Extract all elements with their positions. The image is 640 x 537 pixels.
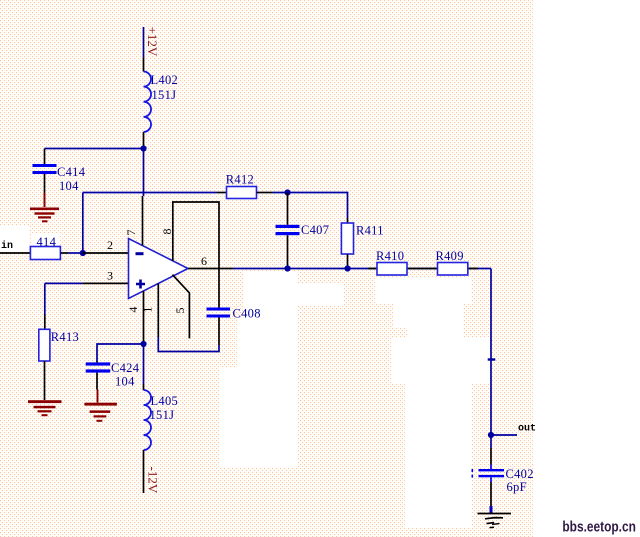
resistor R412: [217, 187, 273, 199]
wire pin4 node to L405: [143, 344, 145, 384]
resistor R413: [39, 315, 50, 401]
svg-text:6: 6: [201, 254, 207, 268]
pin 1 stub: [157, 284, 159, 338]
inductor L402: [144, 57, 152, 148]
white patch around wire tick: [408, 326, 463, 337]
svg-text:1: 1: [141, 307, 155, 313]
inductor L405: [144, 384, 152, 493]
svg-text:C407: C407: [301, 223, 329, 237]
white patch right lower block: [405, 384, 472, 528]
svg-text:4: 4: [126, 307, 140, 313]
wire node to pin7: [143, 149, 145, 197]
wire C408 bottom loop to pin1: [158, 337, 219, 352]
wire to input node: [68, 252, 83, 254]
svg-text:6pF: 6pF: [507, 480, 527, 494]
svg-text:R409: R409: [436, 249, 464, 263]
svg-text:7: 7: [124, 230, 138, 236]
capacitor C407: [276, 193, 300, 269]
svg-text:in: in: [1, 240, 13, 252]
node input junction: [80, 250, 86, 256]
capacitor C414: [33, 149, 57, 194]
svg-text:2: 2: [107, 238, 113, 252]
node C407 bottom junction: [284, 265, 290, 271]
wire output main: [233, 268, 491, 270]
ground C402 earth: [478, 514, 512, 528]
node R411 bottom junction: [344, 265, 350, 271]
capacitor C408: [207, 308, 231, 346]
svg-text:bbs.eetop.cn: bbs.eetop.cn: [562, 519, 636, 536]
power port +12V wire: [143, 27, 145, 57]
wire output vertical to out: [490, 269, 492, 436]
pin 6 stub: [188, 268, 233, 270]
svg-text:C414: C414: [57, 165, 86, 179]
pin 4 stub: [143, 291, 145, 344]
wire black leads R410 R409: [368, 268, 478, 270]
wire pin3 vertical drop: [44, 283, 46, 314]
svg-text:151J: 151J: [152, 88, 177, 102]
node C407 top junction: [284, 189, 290, 195]
white patch left of R410: [290, 283, 344, 305]
white patch small above bottom block: [237, 318, 268, 368]
white patch under R410 R409: [375, 278, 471, 304]
svg-text:L402: L402: [151, 73, 179, 87]
wire input: [0, 252, 30, 254]
resistor R409: [438, 263, 468, 276]
wire tick on vertical: [488, 358, 496, 360]
svg-text:L405: L405: [151, 394, 179, 408]
pin 5 bent stub: [173, 275, 190, 339]
wire C424 branch: [97, 344, 144, 361]
wire pin3 horizontal: [45, 282, 83, 284]
svg-text:151J: 151J: [150, 408, 175, 422]
node out junction: [488, 432, 494, 438]
capacitor C424: [86, 361, 111, 390]
white patch bottom middle block: [219, 368, 297, 467]
node L402/C414 junction: [140, 145, 146, 151]
svg-text:R411: R411: [356, 224, 384, 238]
svg-text:R410: R410: [376, 249, 404, 263]
resistor R414: [30, 247, 68, 260]
op-amp U1 triangle: [129, 239, 189, 299]
pin 3 stub: [83, 282, 129, 284]
resistor R411: [341, 218, 353, 269]
svg-text:R412: R412: [226, 173, 254, 187]
svg-text:414: 414: [37, 235, 57, 249]
svg-text:C424: C424: [111, 361, 140, 375]
svg-text:5: 5: [173, 308, 187, 314]
white patch behind 414 label: [31, 233, 60, 247]
white patch behind in label: [0, 226, 29, 251]
svg-text:C402: C402: [506, 467, 534, 481]
wire out stub: [491, 434, 517, 436]
white patch mid right band: [393, 303, 463, 327]
pin 7 stub: [142, 196, 144, 246]
svg-text:R413: R413: [51, 330, 79, 344]
wire feedback top: [83, 192, 217, 194]
pin 2 stub: [83, 252, 129, 254]
ground C414: [30, 193, 59, 222]
svg-text:104: 104: [59, 179, 79, 193]
wire R412 to R411 corner: [273, 193, 348, 219]
white patch below C408 area: [244, 272, 297, 467]
svg-text:+12V: +12V: [145, 27, 160, 57]
wire feedback drop: [82, 193, 84, 254]
resistor R410: [377, 263, 407, 276]
white patch right column: [533, 0, 640, 537]
op-amp minus sign: [136, 252, 144, 255]
ground C424: [84, 390, 117, 422]
ground R413: [28, 400, 62, 416]
op-amp plus sign: [136, 280, 145, 289]
wire C414 node horizontal: [45, 148, 144, 150]
svg-text:C408: C408: [233, 307, 261, 321]
svg-text:out: out: [518, 424, 536, 435]
svg-text:3: 3: [107, 269, 113, 283]
svg-text:-12V: -12V: [146, 467, 161, 494]
capacitor C402: [472, 435, 505, 513]
svg-text:104: 104: [115, 375, 135, 389]
pin 8 bent stub to C408 top: [173, 202, 219, 308]
svg-text:8: 8: [160, 229, 174, 235]
node C424 junction: [140, 341, 146, 347]
